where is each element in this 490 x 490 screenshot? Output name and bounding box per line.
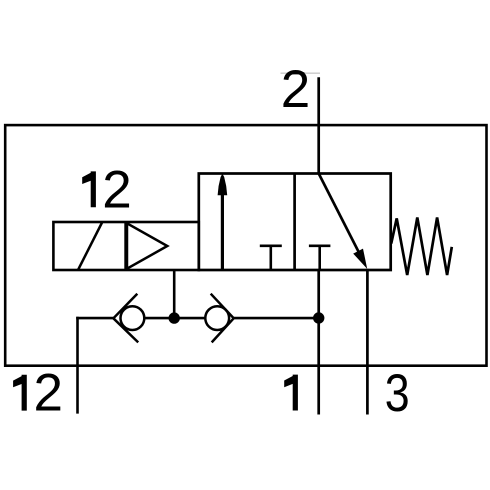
svg-text:2: 2 — [102, 160, 131, 219]
svg-text:2: 2 — [281, 60, 310, 119]
svg-text:3: 3 — [385, 364, 410, 423]
svg-text:2: 2 — [34, 364, 63, 423]
